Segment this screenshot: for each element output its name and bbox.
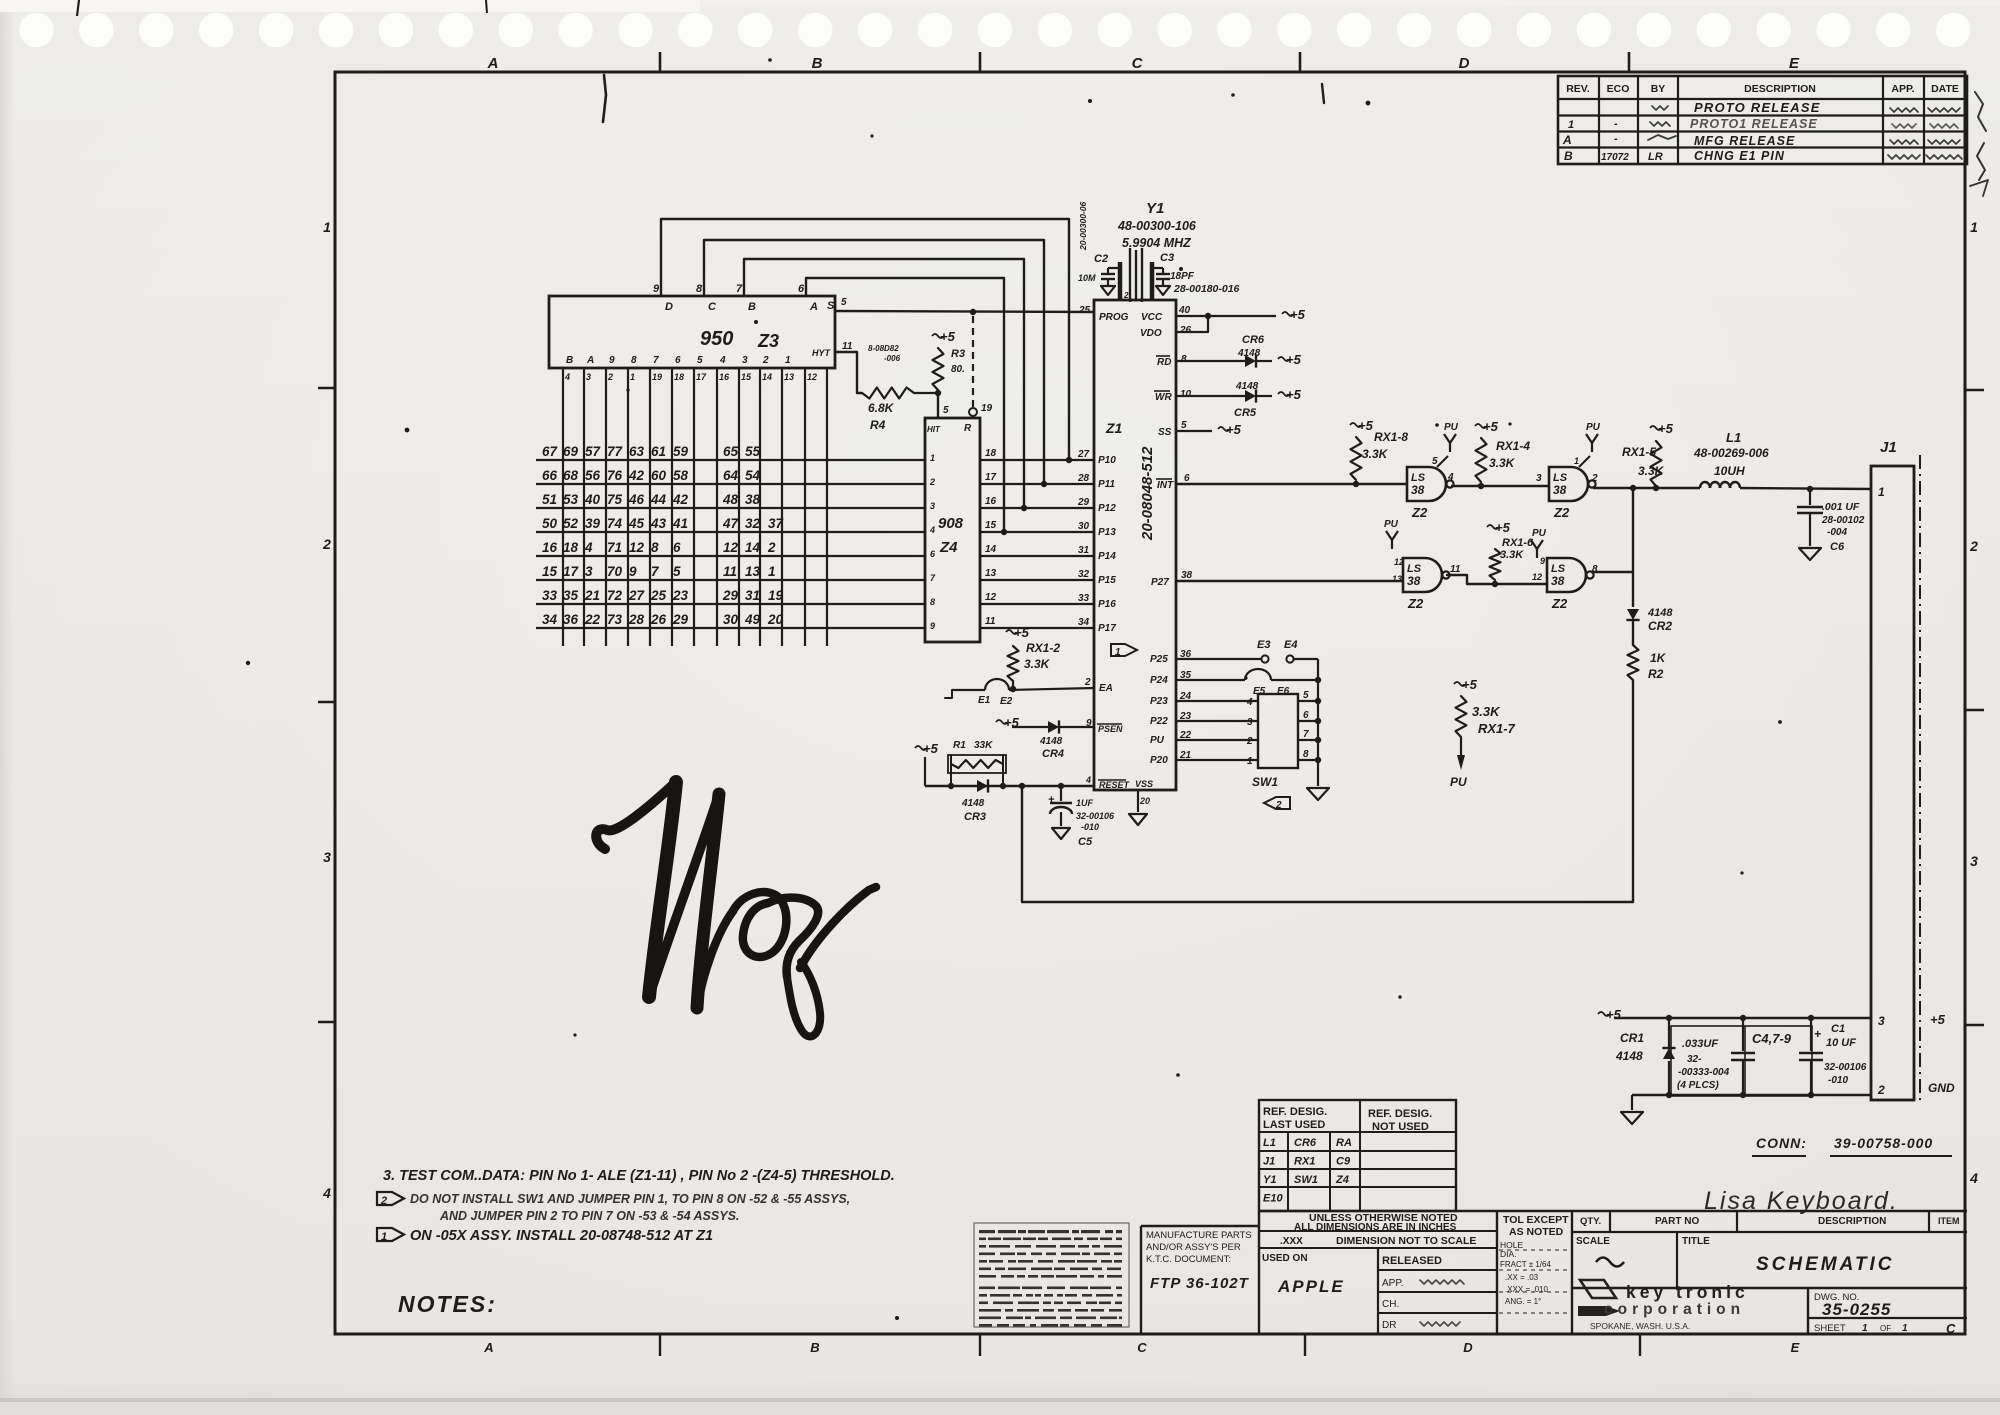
+5 to RESET line	[915, 741, 939, 786]
svg-text:MANUFACTURE PARTS: MANUFACTURE PARTS	[1146, 1230, 1252, 1241]
svg-text:R3: R3	[951, 348, 965, 360]
svg-text:7: 7	[736, 283, 743, 295]
svg-text:P17: P17	[1098, 623, 1116, 634]
svg-text:PU: PU	[1586, 422, 1601, 433]
svg-text:4: 4	[719, 355, 726, 366]
svg-text:50: 50	[542, 516, 558, 531]
wire bus Z3 pin7 to Z1 P12 column	[744, 259, 1027, 511]
capacitor C5	[1048, 786, 1115, 848]
svg-text:(4 PLCS): (4 PLCS)	[1677, 1080, 1719, 1091]
svg-text:23: 23	[672, 588, 689, 603]
svg-text:44: 44	[650, 492, 667, 507]
svg-text:5: 5	[673, 564, 681, 579]
svg-text:75: 75	[607, 492, 623, 507]
svg-text:4: 4	[1246, 697, 1253, 708]
svg-text:13: 13	[745, 564, 761, 579]
svg-text:Y1: Y1	[1146, 200, 1164, 217]
svg-text:2: 2	[380, 1195, 387, 1207]
svg-text:71: 71	[607, 540, 622, 555]
svg-text:8-08D82: 8-08D82	[868, 344, 899, 353]
svg-text:18PF: 18PF	[1170, 271, 1195, 282]
svg-text:28: 28	[628, 612, 645, 627]
svg-text:FTP 36-102T: FTP 36-102T	[1150, 1275, 1250, 1292]
svg-text:8: 8	[651, 540, 659, 555]
svg-text:P22: P22	[1150, 716, 1168, 727]
svg-text:10: 10	[1180, 389, 1192, 400]
key tronic logo block	[1578, 1280, 1749, 1331]
svg-text:3: 3	[585, 564, 593, 579]
svg-text:PU: PU	[1150, 735, 1165, 746]
svg-text:31: 31	[1078, 545, 1090, 556]
svg-text:4: 4	[564, 372, 570, 382]
svg-text:RX1-4: RX1-4	[1496, 439, 1530, 453]
svg-text:+5: +5	[1462, 677, 1478, 692]
svg-text:.XX = .03: .XX = .03	[1505, 1273, 1539, 1282]
svg-text:AND JUMPER PIN 2 TO PIN 7 ON: AND JUMPER PIN 2 TO PIN 7 ON -53 & -54 A…	[439, 1209, 739, 1223]
svg-text:56: 56	[585, 468, 601, 483]
svg-text:E5: E5	[1253, 686, 1266, 697]
svg-text:11: 11	[723, 564, 737, 579]
connector SW1	[1246, 690, 1309, 789]
svg-text:AND/OR ASSY'S PER: AND/OR ASSY'S PER	[1146, 1242, 1241, 1253]
svg-text:3. TEST COM..DATA: PIN No 1-: 3. TEST COM..DATA: PIN No 1- ALE (Z1-11)…	[383, 1168, 895, 1184]
svg-text:A: A	[487, 55, 499, 72]
keyboard matrix row wires	[536, 460, 925, 628]
svg-text:PROTO1 RELEASE: PROTO1 RELEASE	[1690, 117, 1818, 131]
box around C4,7-9	[1671, 1026, 1812, 1096]
svg-text:DO NOT INSTALL SW1 AND JUMPE: DO NOT INSTALL SW1 AND JUMPER PIN 1, TO …	[410, 1192, 850, 1206]
wire Z2d out to CR2 node	[1591, 571, 1633, 573]
svg-text:USED ON: USED ON	[1262, 1253, 1308, 1264]
wire EA pin with E1 E2 jumper	[945, 679, 1094, 707]
svg-text:3.3K: 3.3K	[1472, 704, 1501, 719]
wire Z2c out to Z2d in	[1447, 572, 1547, 587]
svg-text:5: 5	[943, 405, 949, 416]
svg-text:MFG RELEASE: MFG RELEASE	[1694, 134, 1795, 148]
svg-text:76: 76	[607, 468, 623, 483]
svg-text:1: 1	[1574, 456, 1579, 466]
svg-text:A: A	[809, 301, 818, 313]
svg-text:2: 2	[1275, 800, 1282, 811]
svg-text:8: 8	[1592, 564, 1598, 575]
note flag 1 at Z1	[1111, 644, 1137, 658]
svg-text:20: 20	[767, 612, 784, 627]
svg-text:4148: 4148	[1647, 607, 1673, 619]
svg-text:SW1: SW1	[1294, 1174, 1318, 1186]
wire bus Z3 pin9 to Z1 P10 column	[661, 219, 1072, 463]
svg-text:48-00269-006: 48-00269-006	[1693, 446, 1769, 460]
svg-text:BY: BY	[1651, 83, 1666, 95]
svg-text:10M: 10M	[1078, 273, 1096, 283]
svg-text:59: 59	[673, 444, 689, 459]
svg-text:corporation: corporation	[1604, 1301, 1745, 1318]
svg-text:12: 12	[1532, 572, 1542, 582]
dashed wire node S to Z4 R pin	[969, 316, 993, 416]
svg-text:58: 58	[673, 468, 689, 483]
svg-text:8: 8	[1181, 354, 1187, 365]
svg-text:D: D	[665, 301, 673, 313]
svg-text:6.8K: 6.8K	[868, 401, 895, 415]
svg-text:RX1-6: RX1-6	[1502, 537, 1534, 549]
svg-text:3.3K: 3.3K	[1500, 549, 1524, 561]
IC Z3 (950 keyboard decoder)	[549, 283, 853, 382]
svg-text:CR6: CR6	[1294, 1137, 1317, 1149]
svg-text:REF. DESIG.: REF. DESIG.	[1368, 1108, 1432, 1120]
svg-text:31: 31	[745, 588, 760, 603]
wire VCC pin 40 to +5	[1176, 307, 1306, 322]
wire bus Z3 pin6 to Z1 P13 column	[806, 278, 1007, 535]
svg-text:1: 1	[1862, 1323, 1868, 1334]
svg-text:RX1-2: RX1-2	[1026, 641, 1060, 655]
svg-text:61: 61	[651, 444, 666, 459]
svg-text:PU: PU	[1444, 422, 1459, 433]
svg-text:3: 3	[323, 849, 331, 865]
svg-text:4148: 4148	[1039, 736, 1063, 747]
svg-text:L1: L1	[1263, 1137, 1276, 1149]
svg-text:D: D	[1459, 55, 1470, 72]
svg-text:3.3K: 3.3K	[1489, 456, 1516, 470]
svg-text:2: 2	[1246, 736, 1253, 747]
svg-text:38: 38	[1181, 570, 1193, 581]
svg-text:1: 1	[1568, 119, 1574, 131]
svg-text:17072: 17072	[1601, 152, 1629, 163]
scribbles right of revision table	[1970, 92, 1988, 196]
svg-text:APPLE: APPLE	[1277, 1277, 1345, 1296]
svg-text:TITLE: TITLE	[1682, 1236, 1710, 1247]
wire Z3 HYT pin to R4	[835, 352, 862, 393]
svg-text:C1: C1	[1831, 1023, 1845, 1035]
svg-text:P16: P16	[1098, 599, 1116, 610]
svg-text:RELEASED: RELEASED	[1382, 1255, 1442, 1267]
svg-text:4: 4	[584, 540, 593, 555]
svg-text:A: A	[483, 1340, 493, 1355]
svg-text:Z3: Z3	[757, 331, 779, 351]
svg-text:FRACT ± 1/64: FRACT ± 1/64	[1500, 1260, 1551, 1269]
svg-text:27: 27	[628, 588, 646, 603]
svg-text:68: 68	[563, 468, 579, 483]
svg-text:65: 65	[723, 444, 739, 459]
svg-text:CR6: CR6	[1242, 334, 1265, 346]
svg-text:9: 9	[930, 621, 935, 631]
svg-text:42: 42	[628, 468, 645, 483]
ref desig table	[1259, 1100, 1456, 1211]
wire ground rail to J1 pin 2	[1621, 1092, 1871, 1124]
svg-text:2: 2	[1123, 291, 1129, 300]
wires SW1 pins to P2x	[1176, 701, 1258, 760]
svg-text:E6: E6	[1277, 686, 1290, 697]
svg-text:INT: INT	[1157, 480, 1174, 491]
svg-text:39: 39	[585, 516, 601, 531]
svg-text:SS: SS	[1158, 427, 1172, 438]
svg-text:9: 9	[629, 564, 637, 579]
svg-text:PROG: PROG	[1099, 312, 1129, 323]
svg-text:39-00758-000: 39-00758-000	[1834, 1135, 1933, 1151]
svg-text:2: 2	[1084, 677, 1091, 688]
svg-text:54: 54	[745, 468, 761, 483]
wire R4/R3 junction to Z4 HIT pin	[914, 390, 949, 418]
svg-text:38: 38	[1411, 483, 1425, 497]
svg-text:A: A	[586, 355, 594, 366]
wire RESET line	[925, 783, 1094, 789]
svg-text:Z4: Z4	[1335, 1174, 1349, 1186]
svg-text:HIT: HIT	[927, 425, 941, 434]
svg-text:DESCRIPTION: DESCRIPTION	[1744, 83, 1816, 95]
svg-text:2: 2	[322, 536, 331, 552]
NAND gate Z2b	[1549, 422, 1601, 520]
svg-text:RX1-7: RX1-7	[1478, 721, 1516, 736]
IC Z4 (908)	[925, 418, 997, 642]
svg-text:2: 2	[1877, 1083, 1885, 1097]
svg-text:DATE: DATE	[1931, 83, 1959, 95]
svg-text:CR5: CR5	[1234, 407, 1257, 419]
svg-text:+5: +5	[1290, 307, 1306, 322]
bus wire right of SW1 to ground	[1298, 659, 1329, 800]
svg-text:SCALE: SCALE	[1576, 1236, 1610, 1247]
capacitor C2	[1078, 253, 1120, 295]
svg-text:7: 7	[1303, 729, 1309, 740]
diode CR2 4148	[1626, 607, 1673, 633]
svg-text:S: S	[827, 300, 835, 312]
svg-text:6: 6	[1303, 710, 1309, 721]
svg-text:49: 49	[744, 612, 761, 627]
svg-text:4: 4	[929, 525, 935, 535]
svg-text:29: 29	[672, 612, 689, 627]
Woz signature (marker)	[596, 782, 876, 1036]
capacitor C3	[1152, 252, 1240, 295]
IC Z1 (20-08048-512 microcontroller)	[1077, 300, 1193, 806]
svg-text:REF. DESIG.: REF. DESIG.	[1263, 1106, 1327, 1118]
resistor RX1-2 3.3K	[1006, 625, 1060, 690]
svg-text:13: 13	[985, 568, 997, 579]
resistor RX1-4 3.3K pullup	[1475, 419, 1530, 482]
svg-text:CR4: CR4	[1042, 748, 1064, 760]
svg-text:12: 12	[629, 540, 645, 555]
wire P24 with jumper E5 E6	[1176, 669, 1318, 697]
svg-text:60: 60	[651, 468, 667, 483]
svg-text:APP.: APP.	[1382, 1278, 1404, 1289]
wire Z2b out through L1 to J1 pin 1	[1593, 485, 1871, 492]
svg-text:15: 15	[542, 564, 558, 579]
svg-text:28-00102: 28-00102	[1821, 515, 1865, 526]
svg-text:1: 1	[768, 564, 776, 579]
resistor R1 33K with box	[948, 740, 1006, 786]
svg-text:20-08048-512: 20-08048-512	[1139, 446, 1156, 541]
svg-text:LAST USED: LAST USED	[1263, 1119, 1325, 1131]
resistor R4 6.8K	[862, 388, 914, 433]
svg-text:B: B	[1564, 149, 1573, 163]
svg-text:C: C	[1946, 1321, 1956, 1336]
svg-text:10 UF: 10 UF	[1826, 1037, 1856, 1049]
svg-text:E10: E10	[1263, 1193, 1283, 1205]
svg-text:Z2: Z2	[1407, 596, 1424, 611]
svg-text:52: 52	[563, 516, 579, 531]
svg-text:18: 18	[985, 448, 997, 459]
note flag 2 at SW1	[1264, 797, 1290, 811]
svg-text:8: 8	[631, 355, 637, 366]
svg-text:P23: P23	[1150, 696, 1168, 707]
svg-text:8: 8	[696, 283, 703, 295]
svg-text:32-00106: 32-00106	[1076, 811, 1115, 821]
svg-text:48: 48	[722, 492, 739, 507]
svg-text:E: E	[1789, 55, 1800, 72]
svg-text:EA: EA	[1099, 683, 1113, 694]
handwritten Lisa Keyboard	[1704, 1187, 1899, 1215]
svg-text:.XXX = .010: .XXX = .010	[1505, 1285, 1548, 1294]
svg-text:3: 3	[1247, 717, 1253, 728]
svg-text:B: B	[566, 355, 573, 366]
DWG number block	[1814, 1292, 1956, 1336]
svg-text:13: 13	[1392, 574, 1402, 584]
svg-text:8: 8	[1303, 749, 1309, 760]
svg-text:35: 35	[563, 588, 579, 603]
svg-text:1: 1	[323, 219, 331, 235]
title block	[1141, 1211, 1967, 1334]
svg-text:1: 1	[930, 453, 935, 463]
svg-text:19: 19	[981, 403, 993, 414]
svg-text:RX1: RX1	[1294, 1156, 1315, 1168]
wire P27 pin 38 to gate Z2c	[1176, 580, 1403, 582]
svg-text:P27: P27	[1151, 577, 1169, 588]
svg-text:20: 20	[1139, 796, 1150, 806]
svg-text:41: 41	[672, 516, 688, 531]
svg-text:+5: +5	[1286, 352, 1302, 367]
svg-text:R2: R2	[1648, 667, 1664, 681]
svg-text:+: +	[1814, 1027, 1821, 1041]
svg-text:26: 26	[650, 612, 667, 627]
svg-text:+5: +5	[1658, 421, 1674, 436]
svg-text:4148: 4148	[1615, 1049, 1643, 1063]
drawing border frame	[335, 72, 1965, 1334]
ground at VSS pin 20	[1129, 790, 1147, 825]
svg-text:1: 1	[1970, 219, 1978, 235]
svg-text:RESET: RESET	[1099, 780, 1131, 790]
svg-text:2: 2	[762, 355, 769, 366]
CONN part number	[1752, 1135, 1952, 1156]
svg-text:-010: -010	[1828, 1075, 1848, 1086]
svg-text:25: 25	[650, 588, 667, 603]
svg-text:PU: PU	[1450, 775, 1467, 789]
svg-text:5: 5	[697, 355, 703, 366]
svg-text:VCC: VCC	[1141, 312, 1163, 323]
svg-text:1: 1	[785, 355, 791, 366]
svg-text:37: 37	[768, 516, 785, 531]
diode CR6 on RD pin 8	[1176, 334, 1302, 368]
svg-text:2: 2	[607, 372, 613, 382]
keyboard matrix column wires	[563, 368, 827, 646]
svg-text:P24: P24	[1150, 675, 1168, 686]
svg-text:Z1: Z1	[1105, 420, 1123, 436]
svg-text:6: 6	[798, 283, 805, 295]
svg-text:P12: P12	[1098, 503, 1116, 514]
diode CR4 on PSEN	[996, 715, 1094, 760]
svg-text:E1: E1	[978, 695, 991, 706]
svg-text:E4: E4	[1284, 639, 1297, 651]
svg-text:D: D	[1463, 1340, 1473, 1355]
svg-text:18: 18	[674, 372, 684, 382]
svg-text:P14: P14	[1098, 551, 1116, 562]
svg-text:RX1-5: RX1-5	[1622, 445, 1656, 459]
crystal Y1	[1078, 200, 1197, 302]
NAND gate Z2c	[1384, 519, 1461, 611]
svg-text:11: 11	[842, 341, 853, 352]
resistor RX1-7 3.3K to PU	[1450, 677, 1516, 789]
svg-text:9: 9	[609, 355, 615, 366]
svg-text:TOL EXCEPT: TOL EXCEPT	[1503, 1214, 1569, 1226]
svg-text:RD: RD	[1157, 357, 1171, 368]
svg-text:1: 1	[1247, 756, 1253, 767]
svg-text:VSS: VSS	[1135, 779, 1153, 789]
svg-text:28: 28	[1077, 473, 1090, 484]
svg-text:46: 46	[628, 492, 645, 507]
NAND gate Z2a	[1407, 422, 1459, 520]
wire VDD pin 26 joins VCC	[1176, 316, 1208, 332]
svg-text:+5: +5	[940, 329, 956, 344]
wire Z3 S pin to Z1 PROG pin 25	[835, 309, 1094, 315]
svg-text:PSEN: PSEN	[1098, 724, 1123, 734]
svg-text:14: 14	[985, 544, 997, 555]
svg-text:17: 17	[563, 564, 580, 579]
svg-text:.033UF: .033UF	[1682, 1038, 1718, 1050]
svg-text:4: 4	[322, 1185, 331, 1201]
svg-text:29: 29	[722, 588, 739, 603]
svg-text:3: 3	[742, 355, 748, 366]
wire Z2a out to Z2b in	[1451, 473, 1549, 489]
svg-text:P15: P15	[1098, 575, 1116, 586]
svg-text:14: 14	[762, 372, 772, 382]
svg-text:4: 4	[1969, 1170, 1978, 1186]
svg-text:12: 12	[985, 592, 997, 603]
svg-text:C9: C9	[1336, 1156, 1351, 1168]
svg-text:CR2: CR2	[1648, 619, 1672, 633]
revision table	[1558, 76, 1967, 164]
svg-text:16: 16	[719, 372, 730, 382]
svg-text:2: 2	[767, 540, 776, 555]
inductor L1 10UH	[1693, 430, 1769, 488]
svg-text:P20: P20	[1150, 755, 1168, 766]
svg-text:72: 72	[607, 588, 623, 603]
svg-text:1: 1	[630, 372, 635, 382]
notes text	[377, 1168, 895, 1317]
dash-dot boundary at J1	[1919, 455, 1921, 1103]
svg-text:P25: P25	[1150, 654, 1168, 665]
svg-text:7: 7	[653, 355, 659, 366]
svg-text:80.: 80.	[951, 364, 965, 375]
svg-text:SCHEMATIC: SCHEMATIC	[1756, 1254, 1895, 1275]
svg-text:3.3K: 3.3K	[1362, 447, 1389, 461]
svg-text:CR3: CR3	[964, 811, 986, 823]
svg-text:32: 32	[1078, 569, 1090, 580]
svg-text:P10: P10	[1098, 455, 1116, 466]
svg-text:950: 950	[700, 328, 733, 350]
svg-text:13: 13	[784, 372, 794, 382]
svg-text:5: 5	[1303, 690, 1309, 701]
svg-text:2: 2	[1969, 538, 1978, 554]
svg-text:3: 3	[1536, 473, 1542, 484]
svg-text:5: 5	[1181, 420, 1187, 431]
capacitor C1 10UF	[1799, 1018, 1867, 1095]
svg-text:C6: C6	[1830, 541, 1845, 553]
resistor R3 80 ohm	[868, 344, 965, 390]
svg-text:A: A	[1562, 133, 1572, 147]
svg-text:E3: E3	[1257, 639, 1270, 651]
svg-text:ON -05X ASSY. INSTALL 20-0874: ON -05X ASSY. INSTALL 20-08748-512 AT Z1	[410, 1228, 713, 1244]
matrix key number labels	[542, 444, 785, 627]
wire node: vertical CR2/R2 chain	[1632, 488, 1634, 902]
svg-text:77: 77	[607, 444, 624, 459]
svg-text:30: 30	[723, 612, 739, 627]
svg-text:DR: DR	[1382, 1320, 1396, 1331]
svg-text:4148: 4148	[1235, 381, 1259, 392]
